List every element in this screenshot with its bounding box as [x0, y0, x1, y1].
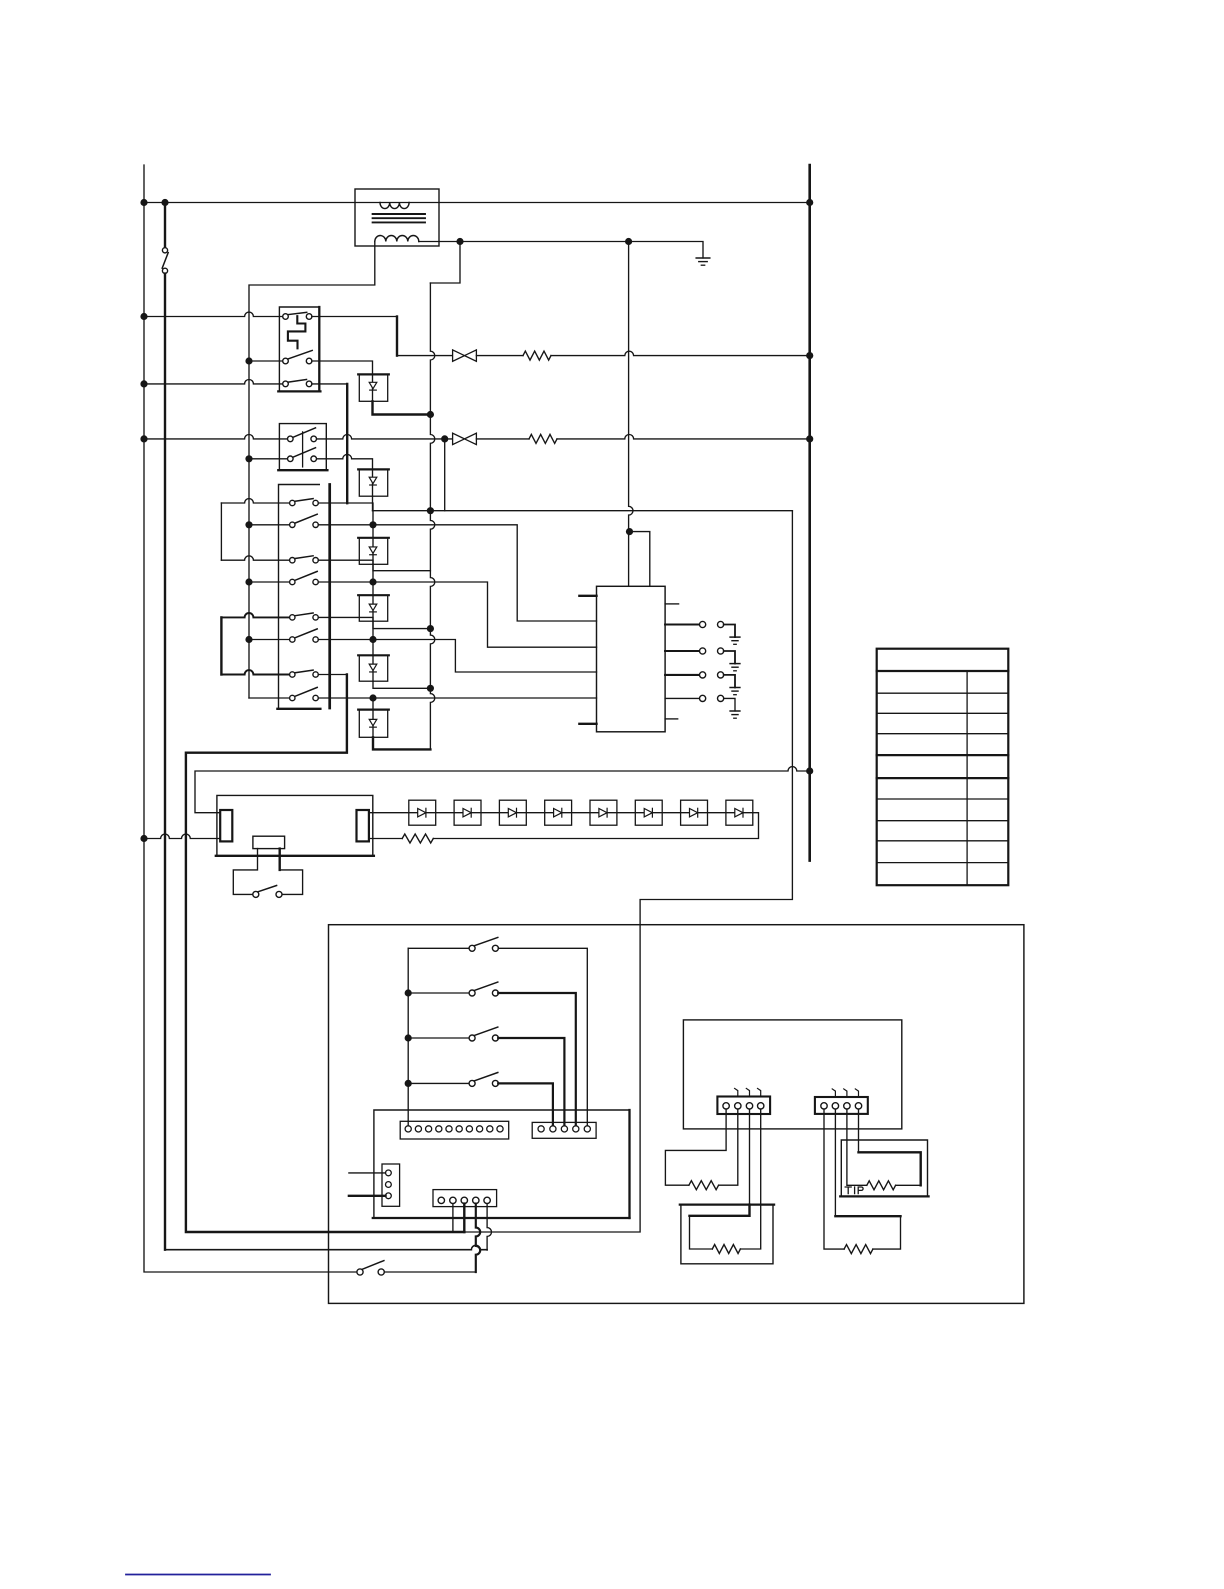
- terminal connector J5 (left 4-pin): [717, 1097, 770, 1115]
- wire R5 to J5 pin4: [740, 1109, 760, 1249]
- module D6 through-pin: [372, 698, 374, 737]
- wire D6 to column B (thick): [373, 737, 430, 749]
- wire J6 pin1 to resistor R7: [824, 1109, 844, 1249]
- wire K2 contact B output to module D2: [317, 454, 373, 469]
- wire R6 to corner: [896, 1184, 921, 1186]
- wire K2 contact A output to valve row 2: [317, 435, 453, 439]
- switch bank S4 row: [408, 1082, 469, 1084]
- diode module D1 box: [359, 374, 387, 401]
- resistor R3 (chain return): [402, 834, 433, 843]
- wire valve row 2 to bus junction: [444, 439, 446, 511]
- diode module D4 box: [359, 595, 387, 621]
- wire L1 to K1 contact 1: [144, 312, 283, 316]
- wire R4 to J5 pin2: [719, 1109, 738, 1185]
- module D2 diode symbol: [369, 477, 377, 483]
- wire bracket to K3 contact 3: [221, 556, 289, 560]
- module D6 diode symbol: [369, 719, 377, 725]
- U1 left stub pin 2 (thick): [579, 723, 596, 725]
- U1 right stub pin a: [665, 603, 679, 605]
- wire valve row 1 left segment: [397, 355, 453, 357]
- wire switch bank feed column: [407, 948, 409, 1125]
- module D1 diode symbol: [369, 382, 377, 388]
- terminal connector J6 (right 4-pin): [815, 1097, 868, 1114]
- resistor R1: [523, 351, 551, 360]
- wire J4 pin2 to bus: [452, 1204, 454, 1232]
- relay K1 blade 3: [288, 380, 306, 383]
- relay K3 contact circles: [290, 500, 295, 505]
- transformer T1 core: [373, 213, 425, 215]
- wire K3 contact7 output down (thick): [318, 674, 347, 676]
- module D3 diode symbol: [369, 547, 377, 553]
- U1 output 1 pins and ground: [665, 623, 699, 625]
- wire K3 contact8 output to IC pin: [318, 697, 596, 699]
- wire D2 to bus y=510.7: [372, 496, 374, 511]
- relay K2 blade B (open): [293, 448, 316, 458]
- resistor R6 (TIP): [867, 1181, 896, 1190]
- label TIP: [845, 1187, 851, 1194]
- wire rail L1 (left thin vertical) with bottom run to pendant switch: [144, 165, 357, 1272]
- control board outline: [374, 1110, 630, 1218]
- relay K2 blade A (open): [293, 428, 316, 438]
- wire J5 pin1 to resistor R4: [665, 1109, 726, 1185]
- relay coil K4: [253, 836, 285, 848]
- wire secondary tap to column B: [430, 242, 460, 284]
- U1 output 4 pins and ground: [665, 697, 699, 699]
- wire bracket to K3 contact 7: [221, 670, 289, 674]
- wire column A to K3 contact 8: [249, 697, 290, 699]
- IC U1 box: [597, 586, 666, 732]
- wire K4 coil pin 2 (thick): [279, 849, 281, 870]
- reference table (empty legend): [877, 649, 1009, 886]
- wire rail L2 (thick vertical) upper segment: [164, 203, 166, 248]
- module D4 through-pin: [372, 582, 374, 621]
- module D4 diode symbol: [369, 604, 377, 610]
- wire secondary output to earth ground: [419, 242, 703, 259]
- wire K3 contact5 jumper down: [318, 617, 373, 639]
- TIP shield box (right): [841, 1140, 927, 1196]
- relay K3 blades: [295, 499, 313, 502]
- wire R2 to right rail: [557, 434, 810, 438]
- relay K1 box: [279, 307, 319, 391]
- wire thick return to J6 pin2: [835, 1215, 900, 1217]
- relay K2 box: [279, 424, 326, 471]
- wire K3 contact6 output to IC pin: [318, 640, 596, 673]
- wire lamp to diode chain: [369, 812, 753, 814]
- board connector J3 (3-pin): [382, 1164, 400, 1206]
- wire J4 pin3 to bus (thick): [463, 1204, 465, 1232]
- wire K4 coil pin 1: [233, 849, 257, 895]
- board connector J2 (5-pin): [532, 1122, 596, 1138]
- wire loop left leg to resistor R5: [690, 1216, 713, 1249]
- wire J4 pin4 drop (thick): [476, 1204, 480, 1272]
- wire right rail (thick vertical): [808, 165, 811, 861]
- wire R7 up to thick return: [873, 1216, 901, 1249]
- relay K1 blade 1 (closed): [288, 312, 307, 314]
- resistor R5: [712, 1245, 740, 1254]
- wire J4 pin5 drop: [487, 1204, 491, 1251]
- switch bank S3 row: [408, 1037, 469, 1039]
- U1 output 3 pins and ground: [665, 674, 699, 676]
- resistor R2: [529, 434, 557, 443]
- wire K1 contact2 output to module D1: [312, 361, 373, 374]
- wire D4 to column B: [373, 621, 430, 628]
- wire D5 to column B: [373, 681, 430, 688]
- wire rail L2 run to board connector pin5: [165, 1245, 487, 1249]
- wire K1 contact1 output to valve row 1: [312, 316, 397, 318]
- diode module D5 box: [359, 655, 387, 681]
- wire D1 to column B (thick): [373, 401, 431, 414]
- wire top feeder L1-to-right-rail: [144, 202, 810, 204]
- wire J5 pin3 to loop (thick L): [749, 1109, 751, 1205]
- wire L1 to K2 contact A: [144, 434, 288, 438]
- wire to J3 pin 3 (thick): [349, 1195, 386, 1197]
- wire K1 contact3 output down (thick): [312, 383, 347, 385]
- U1 right stub pin b: [665, 718, 678, 720]
- transformer T1 box: [355, 189, 439, 246]
- wire column A to K3 contact 6: [249, 639, 290, 641]
- lamp LA2 (right): [357, 810, 369, 841]
- switch bank junction dots: [405, 989, 412, 996]
- module D2 through-pin: [372, 469, 374, 496]
- switch bank S1 row: [408, 947, 469, 949]
- wire column A to K3 contact 2: [249, 524, 290, 526]
- board connector J1 (10-pin): [400, 1121, 509, 1139]
- diode chain diode symbols: [418, 809, 426, 817]
- wire column A to K2 contact B: [249, 458, 288, 460]
- wire bus y=510 long drop: [464, 511, 792, 1232]
- lamp LA1 (left): [220, 810, 232, 841]
- wire bracket rows 1-3: [220, 503, 222, 560]
- wire CV1 to resistor R1: [476, 355, 523, 357]
- wire K3 contact1 to module D3 column: [318, 503, 373, 525]
- U1 left stub pin 1 (thick): [579, 595, 596, 597]
- wire secondary bus to U1 feed column: [629, 242, 633, 587]
- relay K3 actuator bar: [328, 485, 331, 709]
- wire secondary left leg to column A: [249, 242, 375, 699]
- junction dots: [140, 199, 147, 206]
- switch S0 (service disconnect on rail L2): [162, 248, 167, 253]
- relay K2 actuator bar: [302, 432, 304, 467]
- wire column A to K3 contact 4: [249, 581, 290, 583]
- wire U1-rail bus y=771 to lamp box: [195, 767, 810, 813]
- handset loop shield box (left): [681, 1205, 773, 1264]
- relay K2 contact circles: [288, 436, 294, 442]
- module D5 diode symbol: [369, 664, 377, 670]
- wire bus y=510.7: [373, 510, 793, 512]
- relay K1 contact circles: [283, 314, 289, 320]
- switch bank S2 row: [408, 992, 469, 994]
- board connector J4 (5-pin bottom): [433, 1190, 497, 1207]
- relay K3 box: [279, 485, 320, 709]
- diode module D6 box: [359, 710, 387, 738]
- wire to J3 pin 1: [349, 1172, 386, 1174]
- switch S9 on bottom run (pendant switch): [357, 1269, 363, 1275]
- wire diode chain return: [433, 813, 758, 839]
- module D1 through-pin: [372, 374, 374, 401]
- diode module D2 box: [359, 469, 387, 496]
- check valve CV1: [453, 350, 465, 361]
- U1 output 2 pins and ground: [665, 650, 699, 652]
- wire thick jumper to J6 pin4: [859, 1152, 921, 1185]
- wire rail L2 lower segment: [164, 274, 166, 1250]
- transformer T1 secondary winding: [375, 236, 419, 242]
- lamp assembly box: [217, 795, 373, 855]
- wire U1 feed branch: [629, 532, 650, 587]
- control enclosure box: [329, 925, 1024, 1304]
- switch S10 (lamp cutoff): [253, 891, 259, 897]
- diode module D3 box: [359, 538, 387, 565]
- wire J6 pin3 to resistor R6: [847, 1109, 867, 1185]
- wire column A to K1 contact 2: [249, 360, 283, 362]
- diode chain boxes CR1-CR8: [409, 800, 436, 825]
- wire R3 to lamp LA2: [369, 838, 402, 840]
- wire column B vertical with hops: [430, 283, 434, 749]
- wire D3 to column B: [373, 564, 430, 570]
- check valve CV2: [453, 433, 465, 444]
- wire K3 contact3 jumper down: [318, 560, 373, 582]
- resistor R4: [689, 1181, 719, 1190]
- ground symbol (earth, secondary): [696, 257, 710, 259]
- relay K1 blade 2 (open): [288, 350, 312, 359]
- wire K3 contact4 output to IC pin: [318, 582, 596, 647]
- module D3 through-pin: [372, 525, 374, 565]
- wire CV2 to resistor R2: [476, 438, 529, 440]
- terminal unit box: [683, 1020, 901, 1129]
- footer link underline: [126, 1574, 270, 1576]
- wire L1 to lamp box: [144, 834, 220, 838]
- resistor R7: [844, 1245, 873, 1254]
- wire L1 to K1 contact 3: [144, 380, 283, 384]
- wire bracket rows 5-7 (thick): [220, 617, 222, 674]
- module D5 through-pin: [372, 640, 374, 682]
- transformer T1 primary winding: [380, 203, 409, 209]
- wire bracket to K3 contact 5: [221, 613, 289, 617]
- wire bracket to K3 contact 1: [221, 499, 289, 503]
- wire R1 to right rail: [551, 351, 810, 355]
- relay K1 latch linkage: [288, 316, 306, 348]
- wire K3 contact2 output to IC pin: [318, 525, 596, 621]
